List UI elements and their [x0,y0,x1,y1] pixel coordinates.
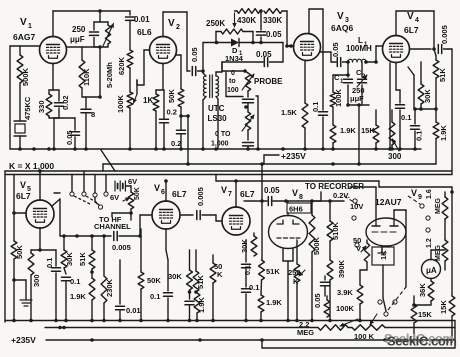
svg-text:6L7: 6L7 [404,25,419,35]
svg-text:V: V [20,180,26,190]
svg-text:390K: 390K [337,259,346,278]
wire V2 cathode [156,64,164,91]
resistor 1.9K V5 [70,278,95,321]
resistor 30K V6 [168,250,192,294]
tube V4 6L7 [383,11,420,63]
svg-text:0.1: 0.1 [45,258,54,268]
svg-text:8: 8 [299,194,303,201]
resistor 510K [327,199,340,260]
potentiometer 100K bottom [352,314,385,341]
label 6H6 box [287,203,311,214]
dashed wiper col2 [408,196,420,204]
label K=X 1000 [9,161,54,171]
switch wipers dashed [74,196,99,204]
resistor 100K fb [324,296,354,317]
label 5-20Mh [105,62,114,88]
svg-text:0.1: 0.1 [415,131,424,141]
resistor 1K V9 boxed [372,247,394,311]
watermark [384,331,457,349]
svg-text:0.02: 0.02 [61,95,70,110]
wire to line3 [186,116,190,166]
capacitor 0.1 V7a [242,240,253,285]
line3 y164 [103,162,436,171]
potentiometer probe upper [242,73,254,91]
potentiometer 2.2MEG [297,319,358,337]
svg-text:100MH: 100MH [346,44,372,53]
wire V2 grid [137,50,150,85]
resistor 500K [17,46,30,86]
tube V5 6L7 [16,180,54,228]
node L1 right [364,60,378,64]
svg-text:V: V [221,185,227,195]
tube V6 6L7 [152,183,187,229]
label TO HF CHANNEL [94,215,131,231]
potentiometer 100K [116,92,133,149]
resistor 1.9K V4 [433,109,448,164]
potentiometer 50V [353,236,370,270]
svg-text:1.9K: 1.9K [340,126,356,135]
capacitor 0.005 out [410,25,450,53]
node V3 grid [287,44,294,48]
potentiometer 300 [388,110,402,161]
svg-text:0: 0 [231,70,235,77]
svg-text:50K: 50K [147,276,161,285]
svg-text:1,000: 1,000 [211,141,229,148]
resistor 1.9K V3 [330,125,356,149]
svg-text:51K: 51K [438,68,447,82]
node top bus junction [98,9,102,13]
svg-text:475KC: 475KC [23,96,32,120]
svg-text:250: 250 [288,268,301,277]
ground V5 [12,278,32,306]
capacitor 0.2 second [171,116,186,149]
switch contacts meter [378,300,397,316]
label 250uuF [70,25,86,44]
wire V7 plate stem [234,179,238,207]
svg-text:to: to [229,78,236,85]
resistor 3.9K [337,270,363,321]
capacitor bypass V6 [185,292,194,321]
tube V1 6AG7 [13,17,67,64]
wire V4 plate top [396,11,436,51]
wire to V4 grid [376,46,383,62]
bus 235V bottom [11,335,455,345]
wire top to switch [312,200,344,202]
potentiometer 250K V7 [288,240,305,321]
svg-text:PROBE: PROBE [254,77,283,86]
svg-text:K: K [293,277,299,286]
wire probe top [222,62,248,73]
wire recorder feed [298,192,321,201]
wire 30K-51K join [390,63,438,149]
resistor 1.9K V7 [258,295,282,321]
resistor 15K b [439,288,455,340]
capacitor 0.02 [55,90,71,118]
V9 internals [372,218,398,253]
capacitor 0.05 V3 out [321,42,349,66]
capacitor 0.01 [126,15,151,50]
diode D1 1N34 [217,39,254,64]
node L1 left [346,60,350,64]
svg-text:250K: 250K [206,19,225,28]
svg-text:6H6: 6H6 [289,205,303,214]
svg-text:30K: 30K [240,239,249,253]
wire V5 cathode [31,228,56,252]
potentiometer 250K [206,19,255,44]
tube V9 12AU7 [366,188,422,246]
svg-text:1K: 1K [379,250,388,260]
svg-text:0.05: 0.05 [65,130,74,145]
svg-text:1.5K: 1.5K [281,108,297,117]
svg-text:MEG: MEG [297,328,314,337]
capacitor 0.05 V1 [54,118,80,149]
svg-text:0.05: 0.05 [256,50,272,59]
wire 100K to 1.9K [332,107,334,125]
capacitor 0.05 series [222,50,283,67]
line5 y174.5 [5,171,452,322]
capacitor probe lower [243,143,254,150]
resistor 110K [79,47,91,88]
svg-text:0.05: 0.05 [313,293,322,308]
resistor 300 V5 [28,250,41,321]
wire V2 plate box [163,12,187,71]
wire diode out to V3 [253,43,283,63]
svg-text:100K: 100K [336,304,355,313]
switch contact col2b [426,216,430,220]
resistor 50K V5 [11,241,24,321]
svg-text:6L6: 6L6 [137,27,152,37]
svg-text:100K: 100K [334,88,343,107]
svg-text:0.1: 0.1 [245,265,252,275]
switch contact col2a [420,204,424,208]
wire tank top lead [94,11,108,22]
switch contact col2c [426,228,430,232]
svg-text:51K: 51K [196,275,205,289]
svg-text:LS30: LS30 [208,114,228,123]
svg-text:1: 1 [28,23,32,30]
wire V6 plate stem [164,179,168,201]
resistor 30K V4 [418,62,432,109]
wire diagonal jog [101,150,115,171]
svg-text:0.005: 0.005 [440,25,449,44]
svg-text:15K: 15K [439,300,448,314]
label 0 to 100 [227,70,239,94]
svg-text:15K: 15K [418,310,432,319]
capacitor 0.1 V5 [45,250,61,321]
svg-text:250: 250 [72,25,86,34]
svg-text:300: 300 [388,152,402,161]
svg-text:K = X 1,000: K = X 1,000 [9,161,54,171]
wire right rail bottom [379,187,454,288]
svg-text:6AG7: 6AG7 [13,32,35,42]
svg-text:110K: 110K [82,68,91,86]
inductor L1 100MH [346,36,372,62]
svg-text:V: V [407,11,414,22]
capacitor 0.1 V5b [62,268,81,321]
svg-text:V: V [20,17,27,28]
svg-text:1.6: 1.6 [426,189,433,199]
capacitor 8uF [81,97,95,149]
svg-text:50K: 50K [134,187,141,200]
capacitor 0.05 V7 out [260,186,286,206]
svg-text:510K: 510K [331,221,340,240]
svg-text:100: 100 [227,87,239,94]
capacitor 0.005 V6 out [196,187,222,221]
svg-text:1.9K: 1.9K [70,292,86,301]
tube V3 6AQ6 [294,11,354,61]
svg-text:V: V [411,188,417,198]
resistor 50K V7bias [210,255,223,321]
resistor 50K V2 [167,89,184,116]
svg-text:SeekIC.com: SeekIC.com [387,334,457,349]
node 430K-330K [259,9,263,13]
resistor 51K V6 [193,250,205,294]
svg-text:6AQ6: 6AQ6 [331,23,353,33]
wire out up [203,41,218,71]
wire V5 grid [12,175,26,242]
capacitor 0.05 V9 [313,276,330,308]
wire V5 right [52,193,111,238]
svg-text:0.2V.: 0.2V. [333,191,350,200]
svg-text:1.2: 1.2 [426,238,433,248]
wire V8 top [284,199,298,215]
svg-text:430K: 430K [237,16,256,25]
capacitor 250uuF tank [90,22,99,47]
label PROBE [254,77,283,86]
svg-text:500K: 500K [21,67,30,86]
svg-text:0.01: 0.01 [134,15,150,24]
svg-text:620K: 620K [117,56,126,75]
svg-text:30K: 30K [423,89,432,103]
wire probe return [256,96,258,149]
line4 y171 [5,170,452,172]
svg-text:300: 300 [32,274,41,287]
capacitor 0.01 bottom [116,260,141,321]
svg-text:μμF: μμF [350,94,364,103]
battery 6V [110,177,137,202]
label 250uuF C2 [350,86,365,103]
resistor 330K [263,9,287,25]
svg-text:230K: 230K [105,278,114,297]
wire 110K bottom [82,88,100,97]
transformer leads [203,62,222,149]
svg-text:0.1: 0.1 [249,283,259,292]
svg-text:15K: 15K [361,126,375,135]
resistor 1.9K V6 [194,292,206,321]
capacitor 0.05 V2 out [187,47,203,75]
capacitor C2 variable [356,62,367,105]
dashed wiper meter [388,287,406,310]
wiper arrow 250K [233,13,237,27]
svg-text:6L7: 6L7 [240,189,255,199]
switch contact 50V [355,243,359,247]
switch contact 10V [352,216,356,220]
wire tank bottom join [346,103,369,166]
inductor 5-20Mh variable [103,22,114,47]
svg-text:μA: μA [426,266,437,275]
svg-text:100K: 100K [116,94,125,113]
svg-text:8: 8 [91,110,95,119]
svg-text:4: 4 [415,17,419,24]
svg-text:V: V [168,18,175,29]
svg-text:1.9K: 1.9K [439,125,448,141]
wire V1 grid [10,46,40,149]
svg-text:50K: 50K [167,89,176,103]
wire V9 left stem [350,187,376,218]
svg-text:6L7: 6L7 [16,191,31,201]
bus dots [18,147,417,151]
node screen bottom [179,114,190,118]
wire meter top [431,250,445,260]
svg-text:K: K [217,270,223,279]
svg-text:0.05: 0.05 [190,47,199,62]
wire V1 cathode [49,64,59,91]
svg-text:0.005: 0.005 [112,243,131,252]
resistor 230K V5 [101,236,114,321]
wire 36K bottom [412,301,431,307]
svg-text:V: V [337,11,344,22]
resistor 15K a [411,296,432,340]
capacitor 0.2 first [160,90,177,149]
svg-text:+235V: +235V [11,335,36,345]
svg-text:1.9K: 1.9K [266,298,282,307]
wire cathode bottom join [49,116,59,149]
switch contacts [70,192,108,209]
resistor 330 [37,90,52,116]
node diode out [259,41,263,45]
wire top bus to V2 line [100,11,130,15]
resistor 1K [143,90,159,149]
svg-text:1.9K: 1.9K [197,297,206,313]
capacitor 0.1 V6 [150,229,173,321]
wire V7 out [244,200,267,202]
wire V8 bottoms [283,249,293,321]
label 10V [350,202,363,211]
tube V8 6H6 [269,188,308,249]
svg-text:50K: 50K [15,245,24,259]
resistor 50K V6 [138,229,161,321]
label +235V top [264,151,306,164]
switch contact 0.2V [353,199,357,203]
capacitor 0.1 V4a [396,63,412,149]
svg-text:V: V [292,188,298,198]
svg-text:5-20Mh: 5-20Mh [105,62,114,88]
capacitor 0.1 screen [311,96,328,149]
svg-text:μμF: μμF [70,35,85,44]
label 0 to 1000 [211,131,231,148]
capacitor 0.005 V5 out [112,232,142,253]
resistor 51K V4 [433,49,447,109]
svg-text:0.1: 0.1 [311,102,320,112]
resistor 390K [327,259,346,320]
wire V9 right stem [394,210,406,287]
capacitor 0.1 V7b [242,283,260,321]
capacitor C1 [334,62,353,105]
resistor 100K V3 [330,73,350,107]
tube V7 6L7 [221,185,255,235]
resistor 620K [117,50,133,92]
resistor 1.2MEG [426,219,448,270]
svg-text:MEG: MEG [435,198,442,215]
wire V6 out [180,214,193,216]
transformer UTC LS30 [203,75,218,98]
svg-text:36K: 36K [418,283,427,297]
node V2 out [201,69,205,73]
wire to V6 grid [140,215,152,236]
capacitor 0.05 top [257,11,283,43]
svg-text:51K: 51K [78,252,87,266]
svg-text:3.9K: 3.9K [337,288,353,297]
capacitor probe [243,91,254,112]
svg-text:0.1: 0.1 [150,292,160,301]
svg-text:2: 2 [176,24,180,31]
svg-text:0.005: 0.005 [196,187,205,206]
resistor 430K [235,9,261,25]
svg-text:0.05: 0.05 [264,186,280,195]
svg-text:+235V: +235V [281,151,306,161]
wire V3 plate top [309,9,323,96]
crystal 475KC [14,83,32,149]
wire V5 plate stem [38,169,42,200]
label TO RECORDER [305,182,364,191]
wire V2 screen [176,55,181,89]
svg-text:6L7: 6L7 [172,189,187,199]
potentiometer probe lower [242,112,254,140]
wire out right rail [448,49,452,175]
bus bottom1 [5,319,455,323]
wire V3 grid feed [285,11,293,48]
svg-text:6: 6 [161,189,165,196]
svg-text:30K: 30K [65,252,74,266]
resistor 15K V3 [361,110,379,149]
label 0.2V [333,191,350,200]
V8 internals [277,220,300,238]
svg-text:0.2: 0.2 [171,139,181,148]
resistor 36K [418,279,434,302]
svg-text:500K: 500K [312,236,321,255]
svg-text:0.2: 0.2 [167,108,177,117]
resistor 1.5K [281,61,308,150]
resistor 30K V5 [61,236,74,268]
switch stubs [72,171,106,205]
resistor 500K [309,199,321,320]
svg-text:6V: 6V [128,177,137,186]
resistor 30K V7 [240,233,257,256]
svg-text:330: 330 [37,100,46,113]
svg-text:7: 7 [228,191,232,198]
svg-text:0.1: 0.1 [401,113,411,122]
svg-text:330K: 330K [263,16,282,25]
svg-text:CHANNEL: CHANNEL [94,222,131,231]
capacitor 0.1 V4b [411,107,424,149]
svg-text:51K: 51K [266,267,280,276]
svg-text:12AU7: 12AU7 [375,197,402,207]
bus ground top section [10,148,421,150]
line6 y181 [216,175,379,188]
svg-text:1K: 1K [143,96,153,105]
resistor 1.6MEG [426,189,448,219]
svg-text:MEG: MEG [435,245,442,262]
potentiometer 50K bias [112,186,141,220]
svg-text:6V: 6V [110,193,119,202]
dashed wiper recorder [344,196,360,206]
svg-text:0.05: 0.05 [266,30,282,39]
svg-text:0.1: 0.1 [70,277,80,286]
wire V1 plate stem to top bus [53,11,100,37]
svg-text:V: V [154,183,160,193]
svg-text:0.05: 0.05 [331,42,340,57]
resistor 51K V5 [78,236,95,278]
